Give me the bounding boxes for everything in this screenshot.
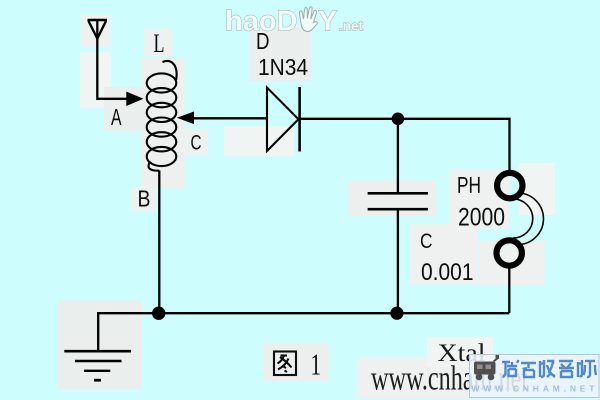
wire bottom bus <box>159 312 510 314</box>
svg-text:B: B <box>138 186 151 212</box>
svg-text:haoD: haoD <box>225 6 298 38</box>
junction ground node <box>152 307 165 320</box>
svg-text:Y: Y <box>318 6 337 38</box>
wire to ground <box>98 313 159 350</box>
inductor L <box>147 61 177 171</box>
svg-text:C: C <box>420 230 433 253</box>
antenna <box>88 20 108 39</box>
headphone PH top earpiece <box>497 173 522 198</box>
svg-text:0.001: 0.001 <box>421 259 474 286</box>
wire diode to junction <box>300 118 392 120</box>
capacitor C plates <box>368 193 428 209</box>
svg-text:C: C <box>191 132 202 155</box>
watermark cnham box <box>470 355 600 398</box>
svg-text:PH: PH <box>457 172 481 198</box>
wire headphone bottom lead <box>508 266 510 313</box>
diode D1 anode triangle <box>267 88 299 152</box>
watermark cnham chinese text <box>502 360 596 377</box>
wire coil to diode <box>192 117 267 119</box>
wire B lead <box>158 171 160 314</box>
tap arrow A <box>126 92 143 106</box>
headphone PH bottom earpiece <box>497 240 522 265</box>
capacitor C bottom lead <box>397 210 399 313</box>
diode D1 cathode bar <box>298 87 301 152</box>
junction capacitor bottom node <box>390 307 403 320</box>
capacitor C top lead <box>397 122 399 192</box>
headphone headband arcs <box>513 193 543 245</box>
tap arrow C <box>177 112 194 125</box>
svg-text:2000: 2000 <box>458 204 505 232</box>
junction top node <box>392 113 405 126</box>
svg-text:A: A <box>111 104 122 130</box>
ground <box>64 351 131 380</box>
wire antenna lead <box>97 20 128 99</box>
svg-text:L: L <box>154 29 165 58</box>
svg-text:1N34: 1N34 <box>258 54 308 80</box>
svg-text:.net: .net <box>339 19 364 34</box>
svg-text:1: 1 <box>311 347 322 382</box>
wire junction to headphones <box>398 119 510 171</box>
watermark haoDIY logo <box>225 6 364 38</box>
watermark haoDIY hand <box>299 7 317 32</box>
watermark cnham icon <box>474 355 499 380</box>
caption figure 1 glyph <box>274 352 296 376</box>
